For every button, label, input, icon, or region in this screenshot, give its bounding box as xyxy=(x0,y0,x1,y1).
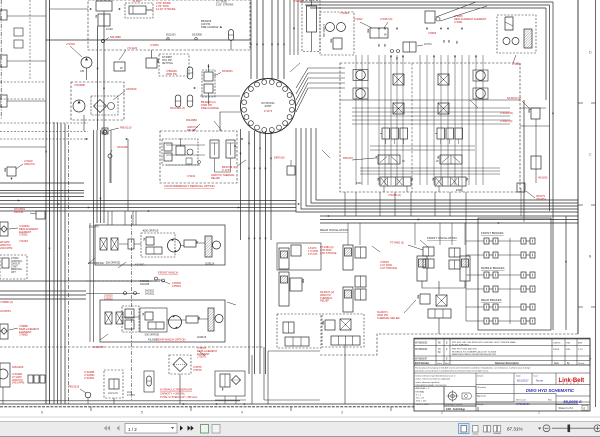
svg-text:REAR WINCH OPTION: REAR WINCH OPTION xyxy=(156,338,186,342)
svg-text:N4J0152 (2): N4J0152 (2) xyxy=(507,96,521,100)
svg-text:B.M: B.M xyxy=(566,349,570,351)
svg-text:R8U0210: R8U0210 xyxy=(120,126,132,130)
svg-text:J70040: J70040 xyxy=(11,258,19,260)
svg-text:This drawing is the property o: This drawing is the property of Link-Bel… xyxy=(415,367,530,370)
svg-text:HOOED B-H CYLINDER CALLOUT, T1: HOOED B-H CYLINDER CALLOUT, T1J0166 xyxy=(452,350,497,353)
svg-text:3: 3 xyxy=(341,411,343,415)
svg-text:L8U0490: L8U0490 xyxy=(117,145,128,149)
svg-text:J71173: J71173 xyxy=(264,109,273,113)
svg-text:R5J0051: R5J0051 xyxy=(222,69,233,73)
svg-text:J71091: J71091 xyxy=(454,20,463,24)
svg-text:SETTING: SETTING xyxy=(162,62,173,65)
svg-text:J70866: J70866 xyxy=(428,32,437,35)
svg-text:J71004 (6): J71004 (6) xyxy=(500,111,513,115)
svg-text:65J1/J20 (2): 65J1/J20 (2) xyxy=(170,106,185,110)
svg-text:1X5515: 1X5515 xyxy=(172,284,182,288)
svg-text:.X ± .1: .X ± .1 xyxy=(416,394,423,396)
svg-text:L8J0490: L8J0490 xyxy=(126,87,137,91)
svg-text:J71099B: J71099B xyxy=(74,83,85,87)
svg-text:W70960093: W70960093 xyxy=(516,403,530,406)
svg-text:J71002: J71002 xyxy=(354,17,363,21)
svg-text:#200 ORIFICE: #200 ORIFICE xyxy=(88,262,104,265)
svg-text:250 PSI: 250 PSI xyxy=(14,210,24,214)
svg-text:4.97 STROKE: 4.97 STROKE xyxy=(380,266,397,270)
svg-text:2401 RPM: 2401 RPM xyxy=(0,246,12,250)
svg-text:None: None xyxy=(536,379,544,383)
svg-text:Weight: Weight xyxy=(477,403,484,406)
svg-text:PRE-CHARGE: PRE-CHARGE xyxy=(201,25,219,29)
svg-text:250 PSI: 250 PSI xyxy=(536,197,546,201)
svg-text:.XXX ± .010: .XXX ± .010 xyxy=(416,401,428,403)
svg-text:98/5 PSI 70-N2 4640 PSI: 98/5 PSI 70-N2 4640 PSI xyxy=(452,349,477,351)
svg-text:OPT: OPT xyxy=(11,272,16,274)
svg-text:2401 RPM: 2401 RPM xyxy=(12,381,24,385)
svg-text:75N: 75N xyxy=(566,343,570,345)
svg-text:J7L1122: J7L1122 xyxy=(127,46,138,50)
svg-text:02J9126: 02J9126 xyxy=(197,336,207,339)
svg-text:DECIMAL: DECIMAL xyxy=(416,390,426,393)
svg-text:2500 PSI: 2500 PSI xyxy=(166,72,177,76)
svg-text:TOTAL SYSTEM CAP = 380 GAL: TOTAL SYSTEM CAP = 380 GAL xyxy=(160,396,198,399)
svg-text:Sheet 1 of 2: Sheet 1 of 2 xyxy=(559,406,574,410)
svg-text:FT-0482 (2): FT-0482 (2) xyxy=(390,241,404,245)
svg-text:CRANES: CRANES xyxy=(559,383,581,386)
svg-text:6: 6 xyxy=(41,411,43,415)
svg-text:Date: Date xyxy=(554,362,560,365)
svg-text:4.50 STROKE: 4.50 STROKE xyxy=(320,251,337,255)
svg-text:3200 PSI: 3200 PSI xyxy=(24,162,35,166)
svg-text:LCV LCV: LCV LCV xyxy=(108,392,118,395)
svg-text:FRONT WINCH: FRONT WINCH xyxy=(158,271,178,275)
svg-text:J71049: J71049 xyxy=(340,11,349,15)
svg-text:-200 ORIFICE: -200 ORIFICE xyxy=(144,334,160,337)
svg-text:D3J0276: D3J0276 xyxy=(93,345,104,349)
svg-text:N3U0266: N3U0266 xyxy=(12,365,24,369)
svg-text:D4J0169: D4J0169 xyxy=(140,284,150,286)
svg-text:43L0062: 43L0062 xyxy=(135,264,145,267)
svg-text:unless otherwise specified.: unless otherwise specified. xyxy=(416,381,440,384)
svg-text:ECO Number: ECO Number xyxy=(415,363,429,365)
svg-text:and details contained herein i: and details contained herein is prohibit… xyxy=(415,369,489,372)
svg-text:D4J0021: D4J0021 xyxy=(145,291,155,293)
svg-text:J71191: J71191 xyxy=(187,174,196,178)
svg-text:J.CC: J.CC xyxy=(578,349,583,351)
svg-text:2/9/16: 2/9/16 xyxy=(553,349,560,351)
svg-text:ANGULAR: ± 1°: ANGULAR: ± 1° xyxy=(416,387,431,390)
svg-text:J70882: J70882 xyxy=(19,333,28,337)
svg-text:J70575: J70575 xyxy=(197,355,206,359)
svg-text:RELIEF: RELIEF xyxy=(211,176,220,180)
svg-text:4.70 ROD: 4.70 ROD xyxy=(308,251,319,253)
svg-text:R5U007: R5U007 xyxy=(343,156,353,160)
svg-text:J71063 (6): J71063 (6) xyxy=(380,17,393,21)
svg-text:1/29/75: 1/29/75 xyxy=(553,343,561,345)
svg-text:14.00" STROKE: 14.00" STROKE xyxy=(156,7,176,11)
svg-text:W78800092: W78800092 xyxy=(415,343,428,345)
svg-text:CW: CW xyxy=(80,70,85,73)
svg-text:REAR BRAKES: REAR BRAKES xyxy=(481,298,502,302)
svg-text:E: E xyxy=(584,407,586,411)
svg-text:J71046A: J71046A xyxy=(84,376,95,380)
svg-text:5: 5 xyxy=(141,411,143,415)
svg-text:REMOVES PREVIOUS REVISION HIST: REMOVES PREVIOUS REVISION HISTORY xyxy=(452,354,497,356)
svg-text:-200 ORIFICE: -200 ORIFICE xyxy=(105,262,121,265)
svg-text:W78800094: W78800094 xyxy=(415,349,428,351)
svg-text:REMOVAL: REMOVAL xyxy=(11,268,23,271)
svg-text:H-342: H-342 xyxy=(133,0,141,3)
svg-text:ISO Level: ISO Level xyxy=(516,400,526,402)
svg-text:RELIEF: RELIEF xyxy=(187,128,196,132)
svg-text:W78800097: W78800097 xyxy=(415,359,428,361)
svg-text:PRE-CHARGE: PRE-CHARGE xyxy=(201,106,219,110)
svg-text:D3J0276: D3J0276 xyxy=(89,226,99,229)
svg-text:W: W xyxy=(436,159,439,163)
svg-text:J70575: J70575 xyxy=(193,368,202,372)
svg-text:DWG HYD SCHEMATIC: DWG HYD SCHEMATIC xyxy=(526,388,575,393)
svg-text:FRONT BRAKES: FRONT BRAKES xyxy=(481,231,504,235)
svg-text:45U030: 45U030 xyxy=(538,176,548,180)
svg-text:#190: #190 xyxy=(356,182,362,185)
svg-text:REAR OSCILLATION: REAR OSCILLATION xyxy=(320,228,348,232)
svg-text:A 51679: A 51679 xyxy=(308,247,317,250)
svg-text:J70880 (2): J70880 (2) xyxy=(0,300,13,304)
svg-text:16.00" STROKE): 16.00" STROKE) xyxy=(452,344,469,346)
svg-text:CTWT: CTWT xyxy=(11,266,18,268)
svg-text:6' JCP: 6' JCP xyxy=(222,168,230,172)
svg-text:#200 ORIFICE: #200 ORIFICE xyxy=(143,230,159,233)
svg-text:J71050 FAN: J71050 FAN xyxy=(322,24,325,37)
svg-text:D6J0990: D6J0990 xyxy=(192,34,203,37)
svg-text:Approval: Approval xyxy=(477,395,486,398)
svg-text:4: 4 xyxy=(241,411,243,415)
svg-text:65J1000: 65J1000 xyxy=(166,34,176,37)
svg-text:10 PSI: 10 PSI xyxy=(424,43,432,46)
svg-text:59,0096 S: 59,0096 S xyxy=(563,399,582,404)
svg-text:Zone: Zone xyxy=(437,363,443,365)
svg-text:Check: Check xyxy=(578,363,585,365)
svg-text:.XX ± .03: .XX ± .03 xyxy=(416,398,425,400)
svg-text:1 / 2: 1 / 2 xyxy=(128,427,137,432)
svg-text:J71053: J71053 xyxy=(19,239,28,243)
svg-text:8/21/2017: 8/21/2017 xyxy=(517,379,529,383)
svg-text:Third Angle Projection: Third Angle Projection xyxy=(445,403,463,406)
svg-text:Cust: Cust xyxy=(533,375,538,378)
svg-text:.XXXX ± .0005: .XXXX ± .0005 xyxy=(416,404,430,406)
svg-text:D6L0980: D6L0980 xyxy=(110,35,121,39)
svg-text:Z-002: Z-002 xyxy=(106,27,113,31)
svg-text:Revision Description: Revision Description xyxy=(495,362,519,365)
svg-text:MOBILE BRAKES: MOBILE BRAKES xyxy=(481,266,505,270)
svg-text:#198: #198 xyxy=(456,189,462,192)
svg-text:02J9126: 02J9126 xyxy=(205,263,215,266)
svg-text:RELIEF: RELIEF xyxy=(320,299,329,303)
svg-text:Drawn: Drawn xyxy=(477,375,484,378)
svg-text:Checked: Checked xyxy=(477,387,486,389)
svg-text:HYDRAULIC RESERVOIR: HYDRAULIC RESERVOIR xyxy=(160,388,192,392)
svg-text:CONTROL: CONTROL xyxy=(11,261,23,263)
svg-text:P8U0216: P8U0216 xyxy=(68,385,80,389)
svg-text:J71029: J71029 xyxy=(66,42,75,46)
svg-text:inches. Tolerances listed ar: inches. Tolerances listed are applicable xyxy=(416,378,452,381)
svg-text:Date: Date xyxy=(516,375,521,378)
svg-text:CAD - Solid Edge: CAD - Solid Edge xyxy=(446,408,466,411)
svg-text:J70992: J70992 xyxy=(19,233,28,237)
svg-text:W: W xyxy=(402,159,405,163)
svg-text:D6L0980: D6L0980 xyxy=(186,118,197,122)
svg-text:JOINT: JOINT xyxy=(264,104,272,108)
svg-text:5.25" STROKE: 5.25" STROKE xyxy=(216,2,234,6)
svg-text:W: W xyxy=(384,33,387,37)
svg-text:9.75 STK: 9.75 STK xyxy=(308,254,318,256)
svg-text:J71004 (6): J71004 (6) xyxy=(500,119,513,123)
svg-text:4OJ2551: 4OJ2551 xyxy=(0,309,11,313)
svg-text:E5R0116: E5R0116 xyxy=(274,156,285,160)
svg-text:J71008: J71008 xyxy=(293,0,302,3)
svg-text:Unless otherwise specified dim: Unless otherwise specified dimensions ar… xyxy=(416,375,456,378)
svg-text:CIRCUIT: CIRCUIT xyxy=(11,264,21,266)
svg-text:W: W xyxy=(120,66,123,70)
svg-text:COUNTERWEIGHT REMOVAL OPTION: COUNTERWEIGHT REMOVAL OPTION xyxy=(164,184,215,188)
svg-text:J71069: J71069 xyxy=(150,43,159,47)
svg-text:87.31%: 87.31% xyxy=(507,427,523,432)
svg-text:J71065 (2): J71065 (2) xyxy=(388,193,401,197)
svg-text:THERMAL RELIEF: THERMAL RELIEF xyxy=(377,316,400,320)
svg-text:D4J0022: D4J0022 xyxy=(145,293,155,295)
svg-text:D4J0161: D4J0161 xyxy=(140,281,150,283)
